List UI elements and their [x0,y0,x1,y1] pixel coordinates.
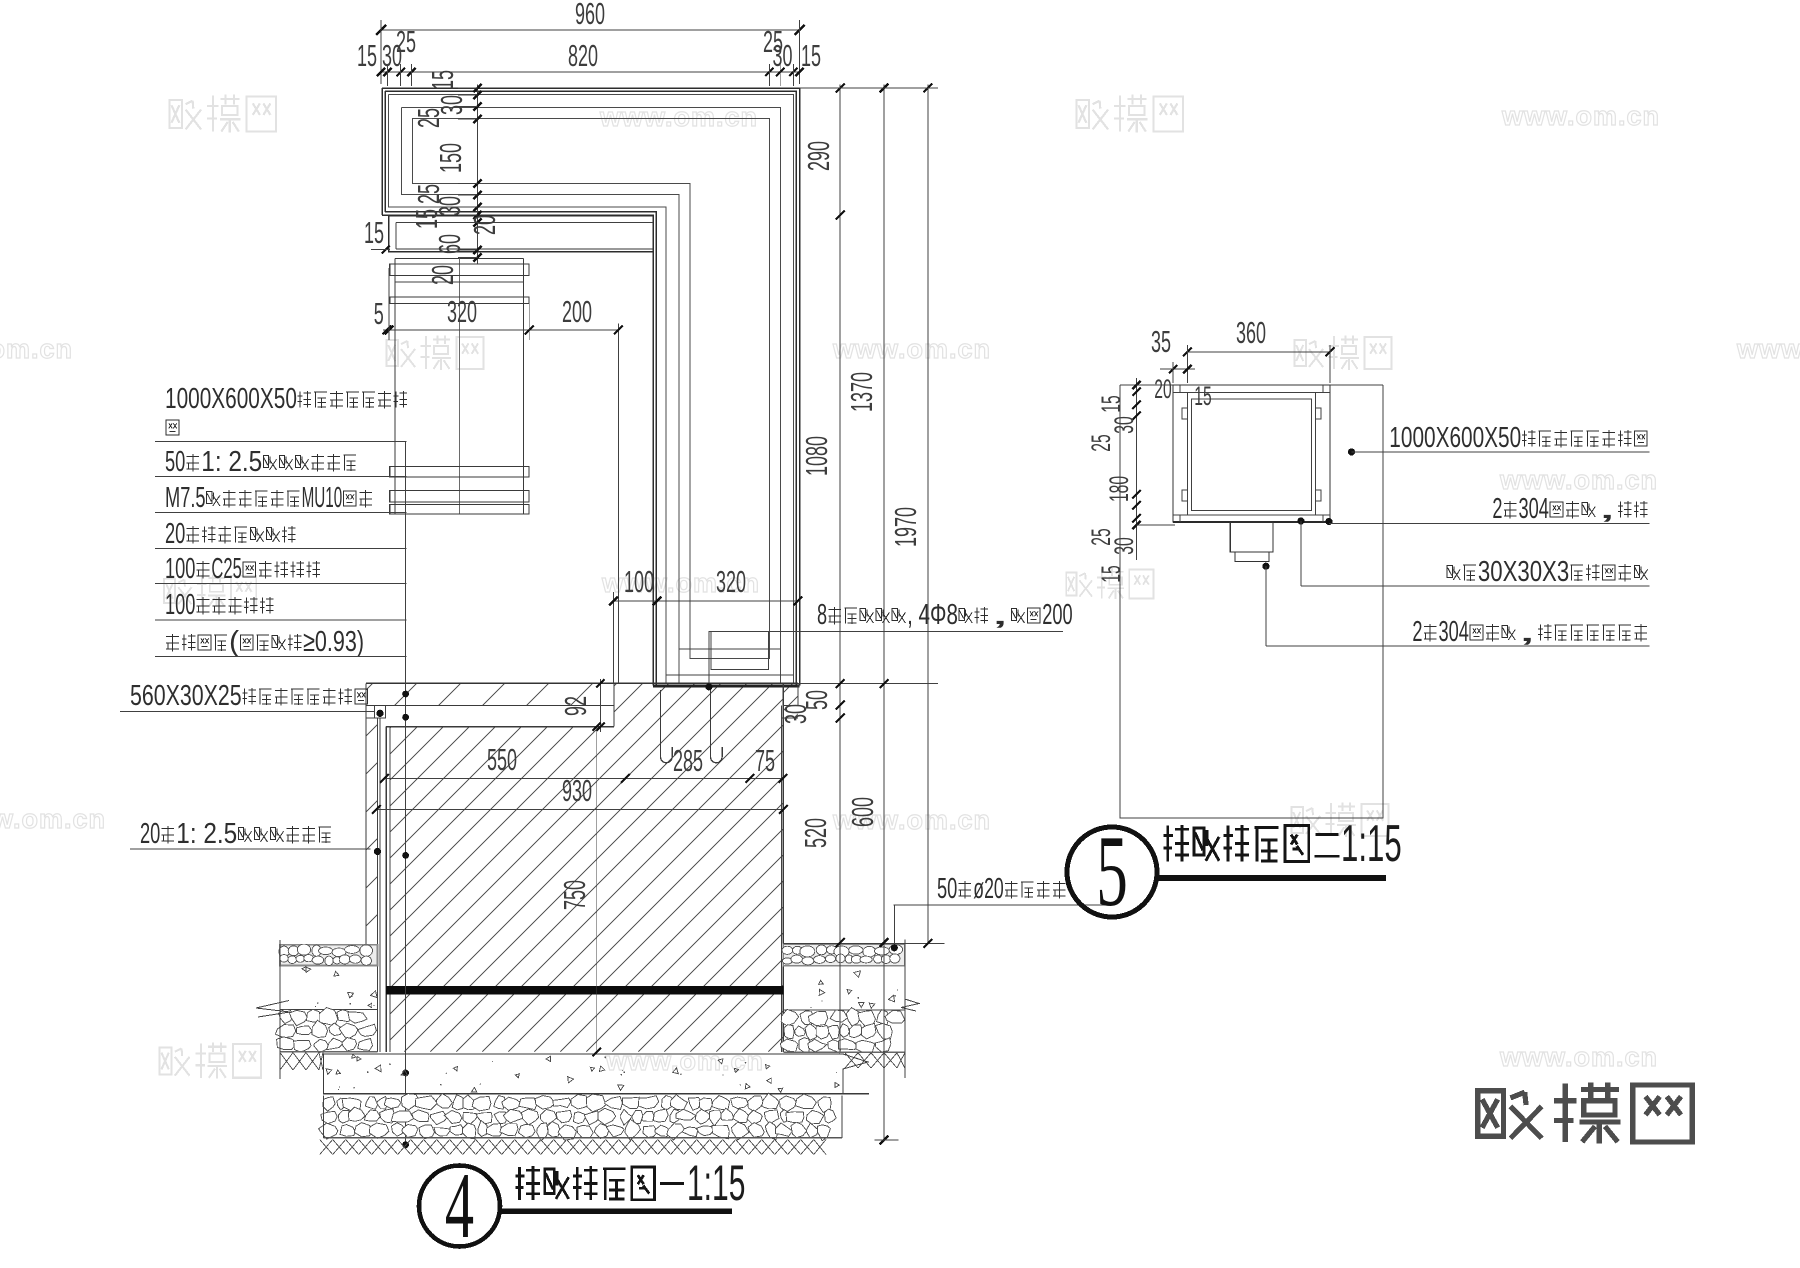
lamp ring 5 base [390,505,529,515]
svg-text:1: 2.5: 1: 2.5 [176,818,237,850]
svg-text:MU10: MU10 [302,482,343,514]
svg-text:20: 20 [140,818,160,850]
svg-text:35: 35 [1151,325,1171,359]
svg-text:ø20: ø20 [973,873,1003,905]
dwg5 leader granite [1348,448,1355,455]
callout rammed soil [166,635,179,637]
svg-text:www.om.cn: www.om.cn [1501,101,1660,131]
slab bottom line [366,705,614,707]
callout wall line with layer dots [405,442,407,1146]
lamp cylinder body [394,259,396,515]
dwg5 top strip [1173,392,1330,394]
svg-text:960: 960 [575,0,605,31]
svg-text:8: 8 [817,599,827,631]
svg-text:930: 930 [562,774,592,808]
svg-text:20: 20 [1154,374,1171,405]
cap slab top line [366,682,798,684]
svg-text:290: 290 [802,141,836,171]
svg-text:200: 200 [1042,599,1072,631]
dwg5 bottom strip [1173,514,1330,516]
dim 5 320 200 lamp [383,329,618,331]
right dim chain 290 1080 50 30 520 [839,85,841,1052]
embedded steel plate box [711,632,769,670]
svg-text:15: 15 [410,209,444,229]
svg-text:820: 820 [568,39,598,73]
dwg5 leader fluorocarbon [1262,563,1269,570]
svg-text:1080: 1080 [800,436,834,476]
block top line [386,726,614,728]
dwg5 left dim chain [1136,378,1138,560]
svg-text:320: 320 [716,565,746,599]
left mortar double line [377,718,379,1052]
svg-text:25: 25 [1086,434,1117,451]
svg-text:15: 15 [1194,381,1211,412]
svg-text:, 4Φ8: , 4Φ8 [907,599,958,631]
dwg5 inner liner [1192,399,1312,511]
svg-text:285: 285 [673,744,703,778]
svg-text:www.om.cn: www.om.cn [832,334,991,364]
secondary bar inner lines [396,222,653,224]
svg-text:1: 2.5: 1: 2.5 [201,446,262,478]
title circle 5 [1067,827,1157,917]
svg-text:200: 200 [562,295,592,329]
dwg5 corner tabs [1179,385,1181,393]
svg-text:1370: 1370 [845,372,879,412]
right concrete layer [857,997,859,999]
svg-text:30: 30 [779,704,813,724]
block right face double [782,683,784,1051]
dwg5 stub lower [1235,552,1269,562]
right trim step [781,683,798,717]
svg-text:15: 15 [801,39,821,73]
svg-text:(: ( [229,626,239,658]
dim 550 285 75 [384,777,783,779]
svg-text:20: 20 [165,518,185,550]
left cobble layer [279,1009,293,1023]
cavity bottom closure B [666,674,793,676]
lamp body line [395,281,523,283]
title 4 text [518,1167,521,1200]
lamp ring 3 [390,467,529,478]
svg-text:60: 60 [433,234,467,254]
svg-text:30: 30 [773,39,793,73]
svg-text:92: 92 [559,696,593,716]
svg-text:360: 360 [1236,316,1266,350]
right ground level line [783,943,944,945]
lamp ring 4 [390,491,529,503]
dwg5 leader angle steel [1297,517,1304,524]
svg-text:30: 30 [382,39,402,73]
svg-text:15: 15 [364,216,384,250]
lamp ring 1 [390,264,529,276]
svg-text:304: 304 [1519,493,1549,525]
lamp-side vertical lines [618,324,620,684]
svg-text:5: 5 [374,297,384,331]
big om logo dark [1478,1091,1504,1136]
dim 750 center [596,727,598,1052]
svg-text:30X30X3: 30X30X3 [1478,556,1569,588]
svg-text:www.om.cn: www.om.cn [0,804,106,834]
svg-text:www.om.cn: www.om.cn [1499,465,1658,495]
left mortar step [374,706,385,718]
right pebble layer [783,944,905,966]
right dim chain 1370 600 [883,85,885,1140]
cavity bottom closure C [679,648,780,650]
svg-text:180: 180 [1104,476,1135,502]
svg-text:1000X600X50: 1000X600X50 [165,383,297,415]
right soil marks [845,1053,858,1068]
left boundary line [279,940,281,1079]
left break jag [256,1001,290,1018]
right cobble layer [781,1009,799,1026]
right dim chain 1970 [927,85,929,944]
svg-text:2: 2 [1492,493,1502,525]
dim 100 320 stem [614,600,798,602]
svg-text:520: 520 [799,818,833,848]
dwg5 top line [1120,384,1383,386]
watermark row3 [164,579,175,603]
dwg5 frame rectangle [1120,385,1383,818]
watermark row1 [169,100,182,128]
level extension at 1140 [875,1139,899,1141]
svg-text:15: 15 [357,39,377,73]
lamp outer profile thick outline [382,88,800,686]
watermark row5 [159,1048,171,1075]
anchor hook right [711,690,723,763]
dwg5 leader bronze steel [1325,518,1332,525]
svg-text:600: 600 [846,797,880,827]
secondary bar outer [389,216,653,252]
soil hatch band under footing [320,1140,333,1155]
svg-text:1:15: 1:15 [687,1155,745,1211]
dim 92 [599,679,601,732]
svg-text:50: 50 [165,446,185,478]
footing concrete layer [323,1054,869,1094]
dwg5 right bar [1315,393,1317,516]
dim row 820 with 15 30 25 [381,71,800,73]
footing right jag [843,1054,868,1094]
dwg5 dim 360 [1187,351,1330,353]
svg-text:≥0.93): ≥0.93) [303,626,364,658]
svg-text:www.om.cn: www.om.cn [599,102,758,132]
svg-text:www.om.cn: www.om.cn [0,334,73,364]
svg-text:25: 25 [412,108,446,128]
svg-text:1:15: 1:15 [1341,815,1402,873]
title 4 underline [500,1208,732,1214]
dwg5 dim 35 [1160,368,1195,370]
svg-text:50: 50 [937,873,957,905]
svg-text:www.om.cn: www.om.cn [1736,334,1800,364]
svg-text:15: 15 [426,70,460,90]
dwg5 left bar [1186,393,1188,516]
inner cavity ring D [413,119,770,659]
svg-text:20: 20 [468,215,502,235]
block step up at 614 [613,683,615,726]
footing cobble layer [323,1097,335,1112]
svg-text:1000X600X50: 1000X600X50 [1389,422,1521,454]
title 5 text [1166,826,1169,862]
svg-text:C25: C25 [211,553,241,585]
svg-text:1970: 1970 [889,507,923,547]
dim 960 top [381,29,800,31]
anchor hook left [661,690,673,763]
slab left edge [365,683,367,944]
svg-text:15: 15 [1096,395,1127,412]
left vertical mini dim chain [477,85,479,264]
dwg5 box outer [1173,385,1330,522]
svg-text:,: , [1517,616,1537,648]
svg-text:15: 15 [1096,565,1127,582]
left pebble layer [280,945,378,966]
lamp ring 2 [390,297,529,303]
svg-text:2: 2 [1412,616,1422,648]
svg-text:5: 5 [1096,815,1128,928]
svg-text:150: 150 [434,143,468,173]
svg-text:30: 30 [1109,416,1140,433]
title circle 4 [419,1166,500,1247]
granite layer ring C [402,108,781,684]
svg-text:20: 20 [426,265,460,285]
svg-text:,: , [990,599,1010,631]
dim 930 [376,809,783,811]
top extension line right [800,87,939,89]
block left face double [385,727,387,1052]
svg-text:30: 30 [1109,537,1140,554]
svg-text:www.om.cn: www.om.cn [605,1046,764,1076]
dwg5 notches [1182,408,1187,419]
svg-text:,: , [1597,493,1617,525]
lamp cylinder centerline [459,259,461,515]
black waterproof band [386,986,783,995]
base thick line at cap [653,684,800,687]
svg-text:304: 304 [1439,616,1469,648]
dwg5 stub upper [1230,522,1273,552]
right boundary line [904,940,906,1079]
svg-text:750: 750 [558,880,592,910]
left soil marks [280,1053,293,1071]
svg-text:100: 100 [165,589,195,621]
svg-text:100: 100 [165,553,195,585]
svg-text:www.om.cn: www.om.cn [1499,1042,1658,1072]
svg-text:100: 100 [624,565,654,599]
svg-text:4: 4 [445,1153,474,1258]
svg-text:75: 75 [755,744,775,778]
svg-text:550: 550 [487,743,517,777]
left concrete layer [280,966,378,1010]
cap top dim extension [798,683,938,685]
right break jag [901,999,919,1011]
svg-text:560X30X25: 560X30X25 [130,680,242,712]
granite layer ring B [389,95,794,685]
svg-text:320: 320 [447,295,477,329]
title 5 underline [1157,875,1386,881]
svg-text:M7.5: M7.5 [165,482,206,514]
